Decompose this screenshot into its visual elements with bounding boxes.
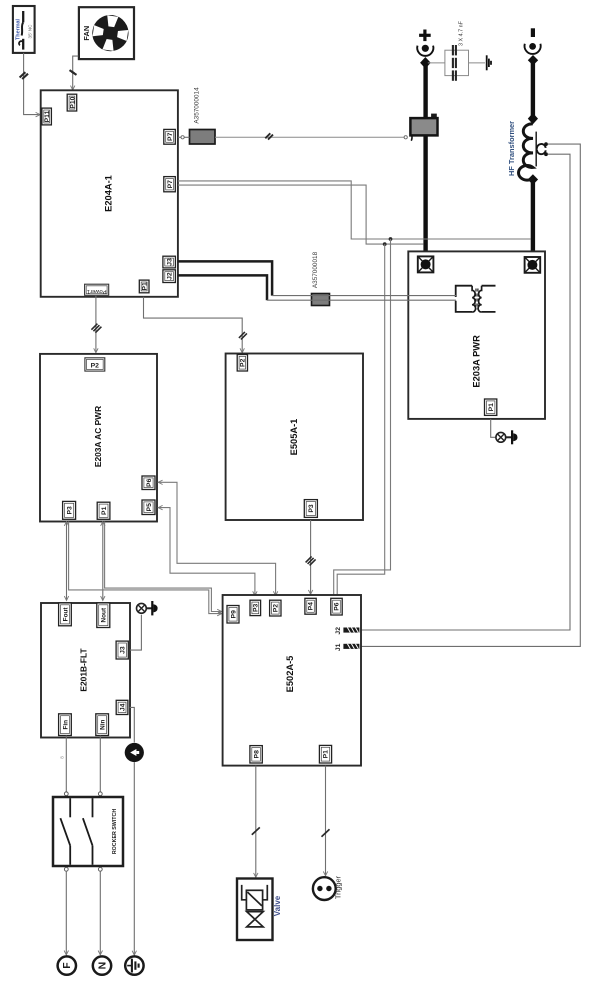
svg-text:Trigger: Trigger (334, 875, 343, 899)
svg-text:P4: P4 (308, 602, 315, 611)
port P2 (E203A AC PWR) (85, 358, 105, 371)
wire P8 to valve (252, 766, 260, 878)
svg-text:Fin: Fin (62, 720, 69, 730)
svg-text:P11: P11 (44, 110, 51, 122)
wire Nin to rocker switch (98, 736, 102, 796)
wire J4 to chassis stud (130, 707, 135, 742)
svg-text:J2: J2 (167, 272, 174, 280)
port Power1 (E204A-1) (85, 284, 109, 295)
svg-text:FAN: FAN (82, 26, 91, 41)
pilot lamp at J3 (137, 601, 158, 615)
terminal N (neutral) (93, 956, 111, 974)
port P3 (E505A-1) (304, 500, 317, 518)
svg-text:N: N (96, 962, 108, 970)
HF transformer tap (537, 142, 548, 156)
port J3 (E201B-FLT) (116, 641, 128, 659)
svg-text:3 X 4.7 nF: 3 X 4.7 nF (459, 20, 465, 46)
svg-text:E201B-FLT: E201B-FLT (79, 648, 89, 692)
positive output terminal + (417, 30, 433, 69)
port P1 (E502A-5) (319, 745, 331, 763)
wire rocker to terminal N (98, 871, 102, 955)
svg-text:P6: P6 (146, 478, 153, 487)
wire J2 to transformer primary (lower) (178, 275, 267, 300)
svg-text:P2: P2 (91, 362, 100, 369)
svg-text:Power1: Power1 (87, 288, 107, 294)
wire P1 of E204A-1 to P2 of E505A-1 (144, 297, 247, 353)
port P9 (E502A-5) (227, 606, 239, 624)
svg-text:Thermal: Thermal (15, 19, 21, 40)
block E203A AC PWR (40, 354, 157, 522)
port J3 (E204A-1) (163, 256, 176, 268)
svg-text:E203A AC PWR: E203A AC PWR (93, 406, 103, 467)
svg-text:P7: P7 (167, 180, 174, 189)
svg-text:A357000018: A357000018 (312, 251, 319, 288)
wire J3 to transformer primary (upper) (178, 261, 272, 295)
svg-text:P3: P3 (253, 604, 260, 613)
wire tap to J1 (outer) (359, 144, 580, 646)
connector J1 (E502A-5) (335, 643, 360, 651)
HF transformer secondary coil (507, 121, 536, 180)
junction node on negative sense wire (389, 237, 393, 241)
port P1 (E203A PWR) (485, 399, 497, 415)
svg-text:E203A PWR: E203A PWR (472, 335, 482, 388)
block E505A-1 (226, 354, 363, 521)
port Nout (E201B-FLT) (97, 603, 110, 628)
svg-text:P1: P1 (488, 403, 495, 412)
port P2 (E502A-5) (270, 600, 281, 616)
connector J2 (E502A-5) (335, 627, 360, 635)
svg-text:J3: J3 (167, 258, 174, 266)
svg-text:Valve: Valve (273, 895, 282, 916)
terminal square positive (E203A PWR) (418, 256, 434, 272)
port P11 (E204A-1) (42, 108, 52, 125)
sense wire P7 lower pin2 to positive bus (178, 185, 424, 244)
wire P6 of E203A AC PWR to P2 of E502A-5 (158, 480, 278, 596)
svg-text:P3: P3 (67, 506, 74, 515)
sense branch wire to P6 pin2 (337, 244, 385, 597)
block E204A-1 (41, 90, 178, 296)
port P1 (E203A AC PWR) (97, 502, 110, 519)
wire J3 to pilot lamp (130, 615, 141, 651)
ferrite bead A357000014 (190, 87, 216, 144)
wire P3 of E505A-1 to P4 of E502A-5 (306, 520, 316, 594)
port J4 (E201B-FLT) (116, 700, 128, 714)
ferrite bead A357000018 (312, 251, 330, 305)
negative output terminal - (525, 28, 541, 65)
terminal F (phase) (58, 956, 76, 974)
wire pair P3/P1 branch to P9 of E502A-5 (69, 522, 222, 616)
thermostat SW1 Thermal 35' NC (13, 6, 35, 53)
fan M1 (79, 7, 134, 59)
svg-text:P10: P10 (69, 96, 76, 108)
port P7 lower (E204A-1) (164, 177, 176, 192)
junction node on positive sense wire (383, 242, 387, 246)
svg-text:35' NC: 35' NC (28, 24, 33, 39)
transformer T1 inside E203A PWR (456, 286, 496, 312)
wire Power1 to P2 of E203A AC PWR (91, 295, 101, 352)
wire P1 to trigger (322, 766, 330, 876)
wire thermal to P11 (20, 53, 41, 117)
work lamp at E203A PWR P1 (496, 430, 518, 444)
svg-text:E505A-1: E505A-1 (289, 419, 299, 456)
sense wire P7 lower pin1 to negative bus (178, 181, 531, 239)
port Nin (E201B-FLT) (96, 714, 109, 736)
wire P1 to work lamp (491, 419, 496, 437)
port Fin (E201B-FLT) (59, 714, 72, 736)
svg-text:P8: P8 (253, 750, 260, 759)
port P6 (E502A-5) (331, 598, 342, 615)
svg-text:P9: P9 (230, 610, 237, 619)
wire P7 upper to current sensor (178, 133, 407, 139)
svg-text:A357000014: A357000014 (194, 87, 201, 124)
port P6 (E203A AC PWR) (142, 476, 155, 490)
svg-text:P6: P6 (334, 602, 341, 611)
positive bus wire (423, 66, 427, 264)
port P2 (E505A-1) (237, 355, 247, 372)
port P5 (E203A AC PWR) (142, 500, 155, 515)
valve Y1 (237, 879, 282, 941)
svg-text:E502A-5: E502A-5 (285, 656, 295, 693)
terminal PE earth (125, 956, 143, 974)
block E502A-5 (223, 595, 361, 766)
svg-text:P1: P1 (323, 750, 330, 759)
svg-text:Fout: Fout (62, 607, 69, 622)
rocker switch S1 (53, 797, 123, 871)
wire stud to earth terminal (132, 762, 136, 955)
svg-text:P2: P2 (273, 604, 280, 613)
wire P5 of E203A AC PWR to P3 of E502A-5 (158, 505, 257, 595)
chassis ground stud (125, 743, 144, 762)
current sensor on positive lead (410, 114, 437, 141)
wire rocker to terminal F (64, 871, 68, 955)
block E201B-FLT (41, 603, 130, 738)
svg-text:J4: J4 (119, 703, 126, 711)
svg-text:P3: P3 (308, 504, 315, 513)
svg-text:E204A-1: E204A-1 (104, 175, 114, 212)
wire tap to J2 (inner) (359, 154, 570, 630)
wire P3 of E203A AC PWR to Fout (64, 522, 68, 601)
svg-text:Nin: Nin (100, 719, 107, 729)
svg-text:HF Transformer: HF Transformer (507, 121, 516, 176)
trigger switch (313, 875, 343, 900)
port P3 (E502A-5) (250, 600, 261, 615)
svg-text:P2: P2 (240, 358, 247, 367)
negative bus wire with diamonds (528, 63, 538, 265)
wire Fin to rocker switch (60, 736, 69, 796)
wire fan to P10 (70, 56, 79, 90)
svg-text:Nout: Nout (101, 607, 108, 622)
port P3 (E203A AC PWR) (63, 501, 76, 519)
svg-text:P1: P1 (141, 282, 148, 291)
port J2 (E204A-1) (163, 270, 176, 283)
svg-text:J2: J2 (335, 627, 342, 635)
port P4 (E502A-5) (305, 598, 316, 614)
port P10 (E204A-1) (67, 94, 77, 111)
svg-text:ROCKER SWITCH: ROCKER SWITCH (112, 809, 118, 854)
svg-text:F: F (61, 962, 73, 969)
sense branch wire to P6 pin1 (334, 239, 391, 597)
svg-text:8: 8 (60, 756, 65, 759)
port P8 (E502A-5) (250, 746, 262, 763)
block E203A PWR (408, 251, 545, 419)
wire pair to transformer primary (267, 296, 456, 301)
wire P1 of E203A AC PWR to Nout (101, 522, 105, 601)
port P7 upper (E204A-1) (164, 129, 176, 144)
svg-text:J3: J3 (120, 646, 127, 654)
svg-text:J1: J1 (335, 643, 342, 651)
port Fout (E201B-FLT) (59, 603, 72, 626)
terminal square negative (E203A PWR) (525, 257, 541, 273)
svg-text:P5: P5 (146, 503, 153, 512)
svg-text:P7: P7 (167, 132, 174, 141)
chassis ground for capacitor bank (487, 55, 491, 70)
capacitor bank 3 X 4.7 nF (428, 20, 485, 80)
svg-text:P1: P1 (101, 506, 108, 515)
port P1 (E204A-1) (139, 280, 149, 293)
